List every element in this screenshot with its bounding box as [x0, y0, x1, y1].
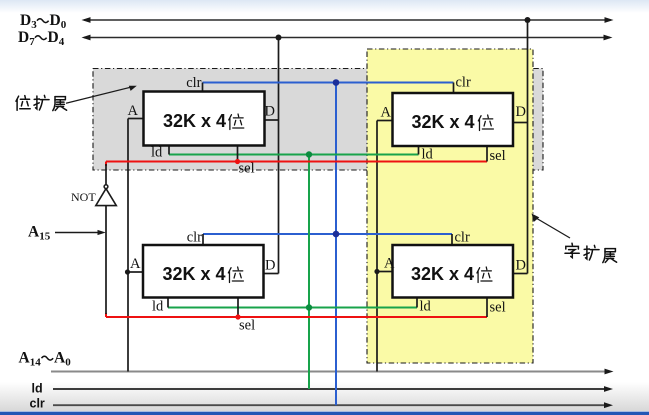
svg-text:sel: sel [490, 300, 506, 316]
junction blue clr bottom [333, 231, 340, 238]
wire blue clr net top row [203, 82, 454, 84]
wire blue clr net bottom row [203, 233, 452, 235]
D column right vertical wire [513, 20, 528, 274]
annotation arrow to yellow box [536, 218, 570, 238]
svg-text:clr: clr [455, 230, 470, 246]
D column left vertical wire [263, 38, 279, 274]
junction on D3~D0 bus [525, 17, 531, 23]
junction A left column [125, 269, 130, 274]
svg-text:32K x 4: 32K x 4 [412, 112, 475, 132]
svg-text:clr: clr [187, 230, 202, 246]
junction green ld bottom [306, 304, 312, 310]
svg-text:sel: sel [490, 148, 506, 164]
wire green ld net top row [169, 154, 419, 156]
NOT gate U1 [96, 189, 117, 206]
svg-text:sel: sel [239, 161, 255, 177]
wire NOT gate output to red sel top [105, 164, 107, 185]
annotation arrow to gray box [66, 87, 132, 103]
svg-text:A: A [128, 103, 139, 119]
svg-text:32K x 4: 32K x 4 [163, 111, 226, 131]
svg-text:ld: ld [151, 145, 163, 161]
svg-text:clr: clr [456, 75, 471, 91]
memory chip U3 (top-right 32K x 4) [381, 75, 526, 165]
bus D7~D4 wire [82, 35, 613, 41]
svg-text:clr: clr [186, 75, 201, 91]
svg-text:D: D [516, 104, 526, 120]
svg-text:ld: ld [32, 382, 43, 396]
svg-text:D: D [516, 258, 526, 274]
svg-text:sel: sel [239, 318, 255, 334]
wire red sel net bottom row (A15 direct) [106, 313, 487, 317]
bus A14~A0 wire [51, 371, 606, 373]
junction blue clr top [333, 79, 340, 86]
svg-text:D: D [265, 104, 275, 120]
svg-text:ld: ld [152, 299, 164, 315]
A column right vertical wire [377, 121, 393, 372]
wire NOT gate input from A15 junction down to red sel bottom [105, 206, 107, 314]
wire green ld net bottom row [168, 307, 417, 309]
memory chip U4 (bottom-left 32K x 4) [130, 230, 275, 334]
word-expansion yellow box [367, 49, 533, 363]
bus ld wire [53, 388, 606, 390]
svg-text:32K x 4: 32K x 4 [411, 264, 474, 284]
wire green ld net vertical to ld bus [308, 155, 310, 390]
svg-text:32K x 4: 32K x 4 [163, 264, 226, 284]
A column left vertical wire [128, 119, 144, 372]
label word-expansion 字扩展 [565, 243, 617, 262]
bus clr wire [53, 404, 606, 406]
bit-expansion gray box [93, 69, 543, 171]
junction red sel top [235, 159, 240, 164]
svg-text:D: D [265, 258, 275, 274]
junction green ld top [306, 151, 312, 157]
wire red sel net top row (from NOT output) [106, 162, 487, 167]
svg-text:NOT: NOT [71, 190, 96, 204]
wire blue clr net vertical to clr bus [335, 83, 337, 406]
junction on D7~D4 bus [276, 35, 282, 41]
memory chip U2 (top-left 32K x 4) [128, 75, 275, 177]
bottom slide bar [0, 412, 649, 415]
label bit-expansion 位扩展 [16, 95, 67, 110]
bus D3~D0 wire [82, 17, 614, 23]
svg-text:ld: ld [420, 299, 432, 315]
svg-text:A: A [130, 256, 141, 272]
wire A15 input [55, 232, 102, 234]
svg-text:A: A [384, 256, 395, 272]
svg-text:ld: ld [422, 147, 434, 163]
memory chip U5 (bottom-right 32K x 4) [384, 230, 526, 318]
junction A right column [374, 269, 379, 274]
svg-text:clr: clr [30, 397, 45, 411]
svg-text:A: A [381, 105, 392, 121]
junction red sel bottom [235, 314, 240, 319]
